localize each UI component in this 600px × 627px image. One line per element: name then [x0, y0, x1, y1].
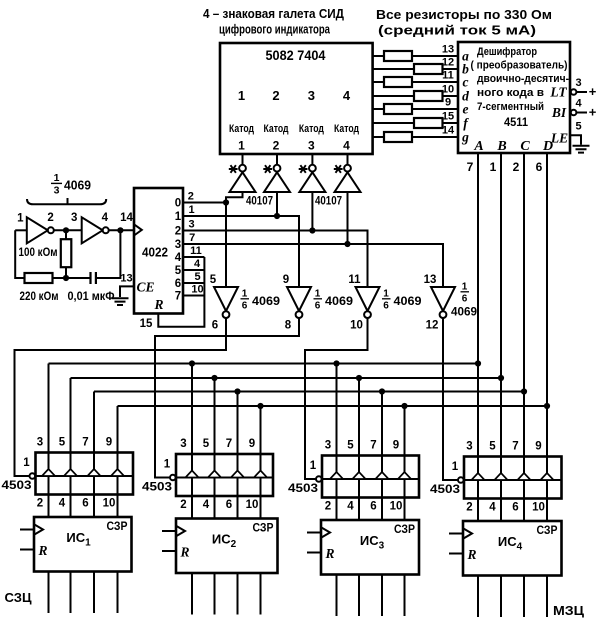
- svg-text:0: 0: [175, 198, 181, 210]
- 4503-4 buffer triangle 3: [517, 473, 530, 480]
- wire: column D block 4: [546, 153, 548, 521]
- wire: column A block 4: [477, 153, 479, 521]
- svg-text:6: 6: [370, 501, 376, 513]
- counter IC4 (ИС4): [463, 521, 562, 576]
- svg-text:9: 9: [283, 274, 289, 286]
- svg-text:СЗР: СЗР: [107, 519, 128, 533]
- svg-text:5: 5: [489, 441, 496, 453]
- svg-text:13: 13: [424, 274, 437, 286]
- svg-text:1: 1: [242, 289, 248, 300]
- resistor R9 220 kOhm: [25, 273, 53, 283]
- svg-text:6: 6: [242, 301, 248, 312]
- wire: buffer Q3 input stub: [311, 192, 313, 231]
- svg-text:6: 6: [462, 294, 468, 305]
- svg-text:4: 4: [194, 258, 201, 270]
- junction bus C to 4503-3: [379, 388, 385, 394]
- svg-text:( преобразователь): ( преобразователь): [471, 60, 568, 72]
- wire: display segment e to decoder pin 9: [373, 108, 458, 110]
- svg-text:6: 6: [512, 502, 518, 514]
- junction bus B to 4503-3: [356, 375, 362, 381]
- svg-text:6: 6: [82, 498, 88, 510]
- inverter D2.4 1/6 4069 pins 13-12: [431, 287, 455, 311]
- wire: column B block 2: [214, 378, 216, 519]
- svg-text:f: f: [463, 116, 469, 131]
- svg-text:1: 1: [54, 172, 60, 184]
- svg-text:7-сегментный: 7-сегментный: [477, 101, 544, 113]
- svg-text:4069: 4069: [252, 294, 280, 308]
- junction bus D to 4511 input D: [544, 403, 550, 409]
- bus wire outputs 4-7 down to R pin 15: [158, 257, 204, 327]
- counter U1 4022: [134, 188, 183, 314]
- wire: buffer Q4 input stub: [347, 192, 349, 244]
- 4503-1 buffer triangle 3: [87, 469, 100, 476]
- IC4 reset input stub: [449, 553, 463, 555]
- svg-text:1: 1: [315, 289, 321, 300]
- svg-text:3: 3: [308, 139, 315, 153]
- svg-text:4069: 4069: [64, 179, 91, 193]
- junction bus D to 4503-3: [401, 403, 407, 409]
- svg-text:100 кОм: 100 кОм: [19, 247, 58, 259]
- svg-text:4: 4: [575, 98, 582, 110]
- IC4 clock chevron: [463, 528, 472, 538]
- resistor R8 100 kOhm (vertical): [65, 230, 67, 239]
- bus wire bit A (row 1): [49, 363, 479, 365]
- 4503-4 buffer triangle 2: [494, 473, 507, 480]
- svg-text:12: 12: [442, 57, 454, 69]
- wire: column D block 1: [117, 406, 119, 517]
- wire: pin1 input of D1.1: [15, 229, 27, 231]
- display module HL1 5082 7404 (4-digit LED): [220, 43, 373, 154]
- wire: column A block 2: [191, 364, 193, 519]
- svg-text:4: 4: [347, 501, 354, 513]
- 4503-1 enable pin 1 bubble: [30, 473, 36, 479]
- svg-text:3: 3: [308, 88, 315, 103]
- resistor R3 330 Ohm: [384, 77, 412, 87]
- junction out2/Q3: [309, 227, 315, 233]
- svg-text:LE: LE: [550, 131, 568, 146]
- svg-text:3: 3: [325, 440, 331, 452]
- buffer DD1 4503: [36, 453, 134, 495]
- wire: column A block 1: [48, 364, 50, 518]
- svg-text:двоично-десятич-: двоично-десятич-: [477, 73, 569, 85]
- svg-text:2: 2: [37, 498, 43, 510]
- 4022 CE pin 13 wire to ground: [120, 286, 134, 297]
- svg-text:ИС2: ИС2: [212, 532, 237, 551]
- wire: 4022 out2 (pin 3) row: [183, 231, 368, 288]
- svg-text:6: 6: [383, 301, 389, 312]
- svg-text:СЗР: СЗР: [394, 522, 415, 536]
- 4503-3 buffer triangle 1: [330, 472, 343, 479]
- svg-text:1: 1: [490, 160, 497, 174]
- 4503-2 buffer triangle 4: [254, 471, 267, 478]
- svg-text:ИС3: ИС3: [360, 533, 385, 552]
- svg-text:40107: 40107: [315, 194, 342, 208]
- wire: display segment c to decoder pin 11: [373, 81, 458, 83]
- svg-text:Катод: Катод: [299, 123, 324, 135]
- svg-text:11: 11: [348, 274, 361, 286]
- svg-text:7: 7: [226, 438, 232, 450]
- svg-text:4069: 4069: [394, 294, 422, 308]
- svg-text:СЗЦ: СЗЦ: [5, 591, 33, 605]
- inverter D2.3 1/6 4069 pins 11-10: [356, 287, 380, 311]
- svg-text:4: 4: [203, 499, 210, 511]
- buffer DD4 4503: [464, 457, 562, 499]
- svg-text:40107: 40107: [246, 194, 273, 208]
- svg-text:7: 7: [467, 160, 474, 174]
- 4503-1 buffer triangle 1: [42, 469, 55, 476]
- capacitor C1 0.01 uF: [66, 277, 91, 279]
- 4503-3 enable rail: [322, 478, 419, 480]
- svg-text:2: 2: [325, 501, 331, 513]
- svg-text:0,01 мкФ: 0,01 мкФ: [68, 291, 115, 303]
- svg-text:2: 2: [513, 160, 520, 174]
- svg-text:4: 4: [343, 88, 351, 103]
- counter IC3 (ИС3): [321, 520, 419, 575]
- junction bus A to 4503-2: [189, 360, 195, 366]
- wire: capacitor to node B: [96, 230, 121, 278]
- svg-text:3: 3: [54, 185, 60, 197]
- svg-text:13: 13: [120, 273, 132, 285]
- svg-text:7: 7: [512, 441, 518, 453]
- resistor R5 330 Ohm: [384, 104, 412, 114]
- svg-text:e: e: [463, 102, 469, 117]
- svg-text:3: 3: [466, 441, 472, 453]
- svg-text:12: 12: [426, 320, 439, 332]
- svg-text:15: 15: [140, 318, 153, 330]
- wire: display segment a to decoder pin 13: [373, 55, 458, 57]
- counter IC1 (ИС1): [34, 517, 132, 572]
- wire: display segment b to decoder pin 12: [373, 68, 458, 70]
- junction out1/Q2: [274, 213, 280, 219]
- svg-text:4503: 4503: [288, 481, 318, 495]
- svg-text:Катод: Катод: [264, 123, 289, 135]
- bus wire bit C (row 3): [94, 391, 524, 393]
- svg-text:10: 10: [103, 498, 116, 510]
- node A junction: [63, 227, 69, 233]
- resistor R2 330 Ohm: [414, 64, 443, 74]
- svg-text:1: 1: [164, 459, 171, 471]
- svg-text:8: 8: [285, 320, 292, 332]
- svg-text:Все резисторы по 330 Ом: Все резисторы по 330 Ом: [376, 8, 552, 22]
- wire: 4022 out3 (pin 7) row: [183, 244, 443, 287]
- svg-text:1: 1: [17, 213, 24, 225]
- wire: buffer Q1 input jog: [226, 192, 243, 203]
- svg-text:R: R: [153, 297, 163, 312]
- svg-text:7: 7: [82, 437, 88, 449]
- junction bus C to 4503-2: [234, 388, 240, 394]
- svg-text:4022: 4022: [142, 246, 168, 260]
- svg-text:9: 9: [249, 438, 255, 450]
- junction bus A to 4503-3: [333, 360, 339, 366]
- svg-text:4503: 4503: [142, 480, 172, 494]
- wire: D1.2 output to 4022 clock pin 14: [109, 229, 134, 231]
- 4503-1 buffer triangle 2: [64, 469, 77, 476]
- svg-text:10: 10: [390, 501, 403, 513]
- 4503-3 buffer triangle 3: [375, 472, 388, 479]
- svg-text:3: 3: [37, 437, 43, 449]
- IC1 clock input stub: [20, 529, 34, 531]
- asterisk mark buffer 4: [334, 165, 343, 173]
- IC4 clock input stub: [449, 533, 463, 535]
- junction bus B to 4503-2: [211, 375, 217, 381]
- wire: 4022 out0 (pin 2) row: [183, 202, 226, 204]
- svg-text:3: 3: [180, 438, 186, 450]
- 4503-4 enable pin 1 bubble: [458, 477, 464, 483]
- IC1 clock chevron: [34, 524, 43, 534]
- svg-text:10: 10: [191, 284, 203, 296]
- svg-text:4511: 4511: [504, 115, 528, 129]
- svg-text:220 кОм: 220 кОм: [20, 291, 59, 303]
- svg-text:A: A: [473, 139, 483, 154]
- 4503-2 enable pin 1 bubble: [170, 475, 176, 481]
- junction bus D to 4503-2: [257, 403, 263, 409]
- inverter D2.2 1/6 4069 pins 9-8: [287, 287, 311, 311]
- svg-text:цифрового индикатора: цифрового индикатора: [219, 23, 331, 37]
- svg-text:7: 7: [189, 232, 195, 244]
- svg-text:Дешифратор: Дешифратор: [477, 46, 537, 58]
- inverter D1.1 (4069) pins 1-2: [27, 217, 48, 243]
- IC3 clock input stub: [307, 532, 321, 534]
- IC2 reset input stub: [162, 550, 176, 552]
- svg-text:10: 10: [532, 502, 545, 514]
- svg-text:ИС1: ИС1: [66, 530, 91, 549]
- svg-text:2: 2: [466, 502, 472, 514]
- feedback wire: D1.1 input loop down: [15, 230, 24, 278]
- svg-text:B: B: [496, 139, 506, 154]
- svg-text:13: 13: [442, 44, 454, 56]
- svg-text:4: 4: [59, 498, 66, 510]
- svg-text:5: 5: [59, 437, 66, 449]
- svg-text:1: 1: [188, 204, 194, 216]
- IC2 clock input stub: [162, 530, 176, 532]
- IC2 output stubs: [191, 573, 193, 615]
- svg-text:4503: 4503: [430, 482, 460, 496]
- svg-text:1: 1: [175, 211, 182, 223]
- svg-text:1: 1: [238, 88, 245, 103]
- svg-text:R: R: [179, 545, 189, 560]
- junction bus C to 4511 input C: [521, 388, 527, 394]
- svg-text:4069: 4069: [325, 294, 353, 308]
- svg-text:g: g: [461, 130, 469, 145]
- svg-text:11: 11: [442, 70, 454, 82]
- svg-text:BI: BI: [551, 105, 567, 120]
- buffer Q3 40107 cathode 3: [311, 154, 313, 165]
- svg-text:+: +: [589, 84, 597, 99]
- junction out0/Q1/inverter D2.1: [223, 199, 229, 205]
- 4022 clock chevron pin 14: [134, 224, 142, 235]
- node B junction: [117, 227, 123, 233]
- 4503-3 buffer triangle 2: [352, 472, 365, 479]
- svg-text:2: 2: [273, 139, 280, 153]
- wire: column C block 4: [523, 153, 525, 521]
- svg-text:4503: 4503: [2, 478, 32, 492]
- wire: column D block 3: [404, 406, 406, 520]
- svg-text:2: 2: [188, 191, 194, 203]
- svg-text:2: 2: [272, 88, 279, 103]
- IC3 output stubs: [336, 575, 338, 617]
- inverter D1.2 (4069) pins 3-4: [82, 217, 103, 243]
- wire: column C block 2: [237, 392, 239, 519]
- wire: display segment d to decoder pin 10: [373, 95, 458, 97]
- buffer DD3 4503: [322, 456, 419, 498]
- svg-text:Катод: Катод: [334, 123, 359, 135]
- svg-text:+: +: [589, 105, 597, 120]
- svg-text:6: 6: [315, 301, 321, 312]
- svg-text:5: 5: [194, 271, 200, 283]
- wire: 220k to node C: [53, 277, 67, 279]
- wire: column B block 4: [500, 153, 502, 521]
- svg-text:ИС4: ИС4: [498, 534, 523, 553]
- wire: D2.2 output to 4503-2 enable pin 1: [155, 318, 299, 478]
- 4503-4 enable rail: [464, 479, 562, 481]
- svg-text:10: 10: [350, 320, 363, 332]
- svg-text:10: 10: [442, 84, 454, 96]
- resistor R7 330 Ohm: [384, 132, 412, 142]
- 4503-1 enable rail: [36, 475, 134, 477]
- svg-text:1: 1: [383, 289, 389, 300]
- ground at 4511 LE: [573, 146, 590, 153]
- 4503-3 enable pin 1 bubble: [316, 476, 322, 482]
- 4503-4 buffer triangle 4: [540, 473, 553, 480]
- wire: column D block 2: [260, 406, 262, 519]
- svg-text:9: 9: [106, 437, 112, 449]
- svg-text:c: c: [463, 75, 469, 90]
- wire: display segment g to decoder pin 14: [373, 136, 458, 138]
- svg-text:R: R: [37, 543, 47, 558]
- node C junction: [63, 275, 69, 281]
- wire: column C block 1: [93, 392, 95, 518]
- svg-text:C: C: [520, 139, 530, 154]
- svg-text:5: 5: [210, 274, 217, 286]
- IC3 reset input stub: [307, 552, 321, 554]
- wire: display segment f to decoder pin 15: [373, 122, 458, 124]
- buffer Q1 40107 cathode 1: [242, 154, 244, 165]
- svg-text:1: 1: [238, 139, 245, 153]
- svg-text:4 – знаковая галета СИД: 4 – знаковая галета СИД: [203, 7, 344, 21]
- decoder U2 4511: [458, 42, 570, 153]
- buffer Q2 40107 cathode 2: [276, 154, 278, 165]
- counter IC2 (ИС2): [176, 519, 278, 574]
- svg-text:LT: LT: [549, 85, 567, 100]
- IC1 reset input stub: [20, 549, 34, 551]
- IC3 clock chevron: [321, 527, 330, 537]
- bus wire bit D (row 4): [118, 405, 548, 407]
- wire: D2.3 output to 4503-3 enable pin 1: [305, 318, 368, 479]
- wire: column B block 1: [70, 378, 72, 517]
- 4503-4 buffer triangle 1: [471, 473, 484, 480]
- svg-text:1: 1: [23, 457, 30, 469]
- svg-text:9: 9: [445, 97, 451, 109]
- svg-text:10: 10: [246, 499, 259, 511]
- svg-text:3: 3: [71, 212, 77, 224]
- IC2 clock chevron: [176, 526, 185, 536]
- svg-text:7: 7: [370, 440, 376, 452]
- svg-text:R: R: [466, 547, 476, 562]
- wire: column C block 3: [381, 392, 383, 521]
- brace over oscillator inverters: [27, 198, 106, 204]
- wire: column B block 3: [358, 378, 360, 520]
- svg-text:1: 1: [452, 461, 459, 473]
- asterisk mark buffer 2: [263, 165, 272, 173]
- resistor R4 330 Ohm: [414, 91, 443, 101]
- junction bus A to 4511 input A: [475, 360, 481, 366]
- junction out3/Q4: [344, 241, 350, 247]
- junction bus B to 4511 input B: [498, 375, 504, 381]
- IC1 output stubs: [48, 572, 50, 614]
- wire: 4022 out1 (pin 1) row: [183, 216, 299, 287]
- 4503-2 buffer triangle 2: [208, 471, 221, 478]
- svg-text:4: 4: [489, 502, 496, 514]
- wires: 4022 outputs 4-7 tied to bus: [183, 256, 204, 258]
- svg-text:5: 5: [175, 265, 182, 277]
- wire: out0 down to inverter D2.1 input: [225, 203, 227, 288]
- svg-text:4: 4: [175, 252, 182, 264]
- svg-text:4069: 4069: [451, 305, 477, 319]
- svg-text:6: 6: [175, 278, 181, 290]
- svg-text:9: 9: [393, 440, 399, 452]
- buffer Q4 40107 cathode 4: [347, 154, 349, 165]
- svg-text:3: 3: [175, 239, 181, 251]
- svg-text:5082 7404: 5082 7404: [266, 48, 326, 63]
- svg-text:11: 11: [190, 245, 202, 257]
- svg-text:6: 6: [212, 320, 218, 332]
- resistor R1 330 Ohm: [384, 51, 412, 61]
- svg-text:ного кода в: ного кода в: [477, 87, 544, 99]
- wire: D1.1 output to D1.2 input: [54, 229, 82, 231]
- svg-text:4: 4: [102, 212, 109, 224]
- asterisk mark buffer 3: [299, 165, 308, 173]
- bus wire bit B (row 2): [71, 377, 502, 379]
- 4503-2 buffer triangle 1: [185, 471, 198, 478]
- svg-text:4: 4: [343, 139, 350, 153]
- 4503-2 buffer triangle 3: [231, 471, 244, 478]
- asterisk mark buffer 1: [229, 165, 238, 173]
- svg-text:5: 5: [203, 438, 210, 450]
- svg-text:СЗР: СЗР: [253, 521, 274, 535]
- svg-text:МЗЦ: МЗЦ: [553, 604, 585, 618]
- svg-text:5: 5: [575, 121, 581, 133]
- svg-text:6: 6: [226, 499, 232, 511]
- svg-text:СЗР: СЗР: [537, 523, 558, 537]
- svg-text:14: 14: [442, 125, 455, 137]
- wire: column A block 3: [336, 364, 338, 521]
- svg-text:1: 1: [310, 460, 317, 472]
- buffer DD2 4503: [176, 454, 273, 496]
- svg-text:2: 2: [47, 212, 53, 224]
- svg-text:9: 9: [535, 441, 541, 453]
- wire: D2.1 output to 4503-1 enable pin 1: [15, 318, 227, 476]
- svg-text:5: 5: [347, 440, 354, 452]
- svg-text:7: 7: [175, 291, 181, 303]
- wire: buffer Q2 input stub: [276, 192, 278, 216]
- 4503-3 buffer triangle 4: [398, 472, 411, 479]
- svg-text:1: 1: [462, 282, 468, 293]
- svg-text:14: 14: [120, 212, 133, 224]
- IC4 output stubs: [477, 576, 479, 618]
- ground at 4022 CE: [112, 298, 129, 305]
- svg-text:3: 3: [575, 77, 581, 89]
- wire: D2.4 output to 4503-4 enable pin 1: [443, 318, 458, 480]
- 4503-1 buffer triangle 4: [111, 469, 124, 476]
- svg-text:3: 3: [188, 219, 194, 231]
- resistor R6 330 Ohm: [414, 118, 443, 128]
- svg-text:2: 2: [175, 226, 181, 238]
- svg-text:R: R: [324, 546, 334, 561]
- svg-text:6: 6: [536, 160, 543, 174]
- svg-text:CE: CE: [136, 280, 154, 295]
- svg-text:2: 2: [180, 499, 186, 511]
- svg-text:15: 15: [442, 111, 454, 123]
